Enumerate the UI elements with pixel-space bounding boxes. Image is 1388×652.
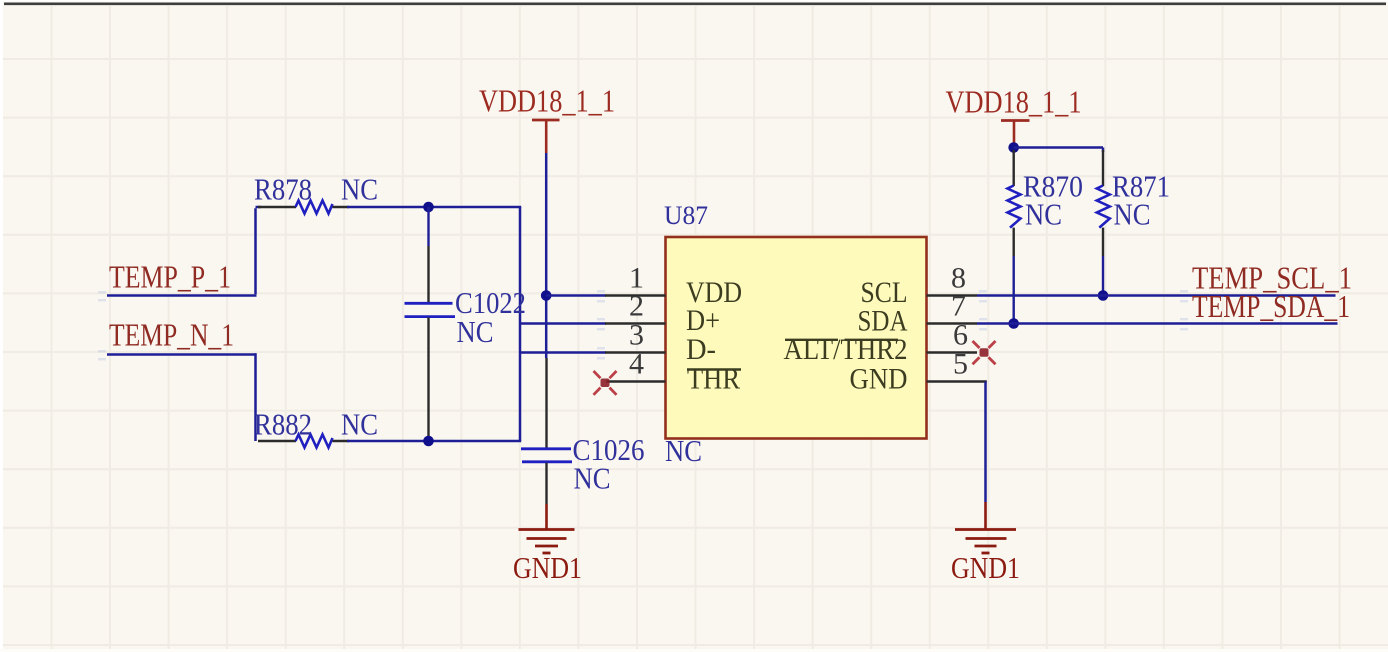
capacitor C1022 top lead: [427, 207, 429, 302]
svg-text:NC: NC: [574, 461, 611, 496]
pin 1 stub: [605, 294, 666, 297]
ground GND1 right lead: [984, 502, 987, 529]
no-connect X pin 4: [594, 371, 617, 395]
capacitor C1022 plates: [405, 303, 456, 316]
power bar VDD18_1_1 left: [532, 119, 560, 122]
resistor R870 bottom pin: [1013, 228, 1015, 322]
label R870 NC: [1025, 197, 1062, 232]
label R878: [254, 172, 312, 207]
resistor R882 left pin: [258, 440, 296, 442]
label R882: [254, 407, 312, 442]
svg-text:VDD18_1_1: VDD18_1_1: [479, 83, 615, 119]
resistor R870 top pin: [1013, 150, 1015, 186]
wire power to R871 top: [1014, 148, 1103, 153]
net label TEMP_P_1: [109, 259, 231, 295]
label R871 NC: [1114, 197, 1151, 232]
resistor R878 left pin: [258, 206, 296, 208]
svg-text:4: 4: [629, 348, 644, 381]
resistor R870 body: [1008, 186, 1021, 228]
pin name GND: [850, 363, 908, 396]
power lead VDD18_1_1 left: [545, 120, 548, 153]
pin name ALT/THR2: [784, 333, 908, 366]
wire node to pin3: [520, 351, 606, 354]
power label VDD18_1_1 right: [946, 84, 1082, 120]
power bar VDD18_1_1 right: [1001, 119, 1030, 122]
svg-text:NC: NC: [1025, 197, 1062, 232]
power label VDD18_1_1 left: [479, 83, 615, 119]
pin name VDD: [686, 276, 742, 309]
label C1026 NC: [574, 461, 611, 496]
ground GND1 left bars: [519, 530, 575, 554]
label GND1 left: [513, 550, 582, 585]
label U87: [664, 201, 708, 230]
resistor R882 body: [296, 435, 333, 448]
power lead VDD18_1_1 right: [1013, 121, 1016, 146]
wire TEMP_N_1 dropper: [254, 353, 257, 441]
label R878 NC: [341, 172, 378, 207]
svg-text:TEMP_N_1: TEMP_N_1: [109, 317, 234, 353]
wire TEMP_SDA_1: [977, 322, 1338, 325]
pin name SDA: [858, 305, 908, 338]
pin name D+: [686, 304, 720, 337]
junction dot power right: [1008, 142, 1019, 153]
pin 2 stub: [605, 322, 666, 325]
pin 8 stub: [927, 294, 978, 297]
pin 5 number: [953, 348, 968, 381]
svg-text:R878: R878: [254, 172, 312, 207]
svg-text:NC: NC: [1114, 197, 1151, 232]
label R871: [1112, 169, 1170, 204]
pin name SCL: [861, 276, 908, 309]
label GND1 right: [951, 550, 1020, 585]
svg-text:5: 5: [953, 348, 968, 381]
junction dot R878 node: [423, 202, 434, 213]
resistor R871 top pin: [1102, 150, 1104, 186]
net label TEMP_N_1: [109, 317, 234, 353]
ground GND1 right bars: [955, 530, 1016, 554]
ghost marks: [98, 290, 1188, 360]
label R870: [1023, 169, 1083, 204]
label R882 NC: [341, 407, 378, 442]
pin 6 stub: [927, 351, 978, 354]
pin 6 number: [953, 319, 968, 352]
svg-text:U87: U87: [664, 201, 708, 230]
label C1022 NC: [457, 314, 494, 349]
svg-text:NC: NC: [341, 407, 378, 442]
resistor R871 body: [1097, 186, 1110, 228]
resistor R871 bottom pin: [1102, 228, 1104, 294]
svg-text:GND1: GND1: [513, 550, 582, 585]
wire vertical bus x520: [519, 207, 522, 441]
pin 2 number: [629, 290, 644, 323]
pin 1 number: [629, 262, 644, 295]
pin 7 number: [951, 290, 966, 323]
net label TEMP_SCL_1: [1192, 260, 1352, 296]
junction dot R882 node: [423, 436, 434, 447]
label C1022: [455, 285, 526, 320]
label NC pin4: [665, 433, 702, 468]
svg-text:TEMP_SDA_1: TEMP_SDA_1: [1192, 288, 1350, 324]
wire VDD to pin1 column: [545, 153, 548, 358]
resistor R882 right pin: [333, 440, 350, 442]
pin 4 number: [629, 348, 644, 381]
wire TEMP_P_1 horizontal: [107, 294, 257, 297]
capacitor C1026 top lead: [545, 358, 547, 448]
pin 3 number: [629, 319, 644, 352]
svg-text:ALT/THR2: ALT/THR2: [784, 333, 908, 366]
resistor R878 body: [296, 201, 333, 214]
wire R882 to node: [347, 440, 521, 443]
net label TEMP_SDA_1: [1192, 288, 1350, 324]
svg-text:VDD18_1_1: VDD18_1_1: [946, 84, 1082, 120]
svg-text:R882: R882: [254, 407, 312, 442]
junction dot SDA: [1008, 318, 1019, 329]
svg-text:GND1: GND1: [951, 550, 1020, 585]
svg-text:GND: GND: [850, 363, 908, 396]
wire node to pin2: [520, 322, 606, 325]
svg-text:D-: D-: [686, 333, 716, 366]
svg-text:TEMP_P_1: TEMP_P_1: [109, 259, 231, 295]
capacitor C1026 bottom lead: [545, 463, 547, 504]
pin name D-: [686, 333, 716, 366]
no-connect X pin 6: [973, 341, 996, 364]
capacitor C1026 plates: [521, 449, 572, 462]
wire TEMP_SCL_1: [977, 294, 1336, 297]
capacitor C1022 bottom lead: [427, 318, 429, 438]
wire pin5 down: [984, 382, 987, 503]
pin 8 number: [951, 262, 966, 295]
pin 5 stub: [927, 380, 987, 383]
pin 4 stub: [606, 380, 666, 383]
svg-text:NC: NC: [341, 172, 378, 207]
pin name THR: [687, 363, 741, 396]
label C1026: [573, 432, 645, 467]
pin 3 stub: [605, 351, 666, 354]
sheet top border line: [4, 2, 1386, 5]
wire TEMP_N_1 horizontal: [107, 353, 257, 356]
pin 7 stub: [927, 322, 978, 325]
wire TEMP_P_1 riser: [256, 207, 262, 294]
junction dot pin1: [541, 290, 552, 301]
wire R878 to node: [347, 206, 521, 209]
junction dot SCL: [1098, 290, 1109, 301]
ic U87 body: [666, 237, 927, 439]
ground GND1 left lead: [545, 504, 548, 529]
resistor R878 right pin: [333, 206, 350, 208]
svg-text:NC: NC: [457, 314, 494, 349]
svg-text:THR: THR: [687, 363, 740, 396]
wire pin1 connect: [546, 294, 606, 297]
